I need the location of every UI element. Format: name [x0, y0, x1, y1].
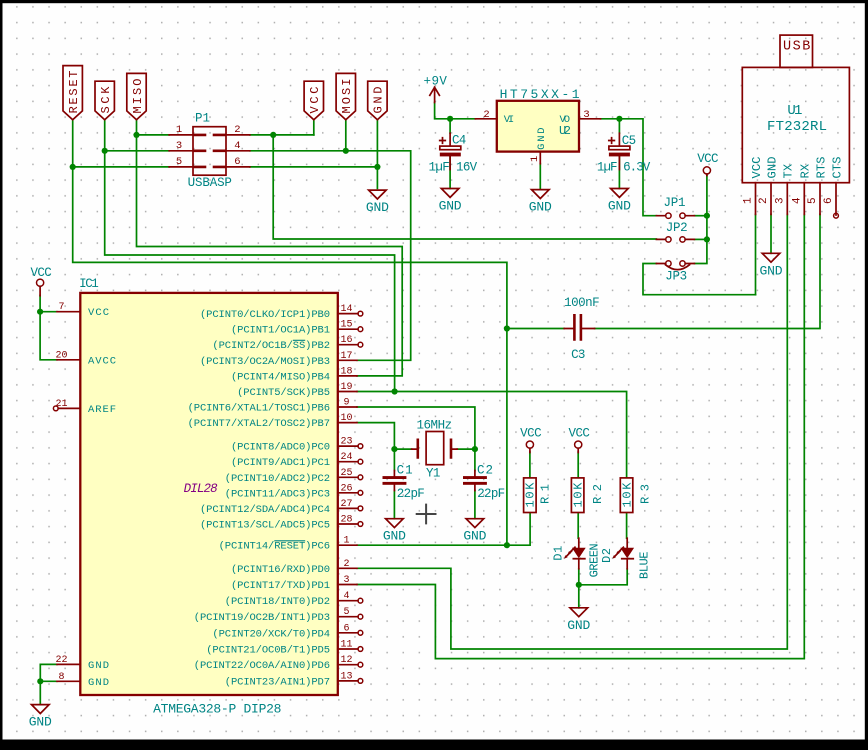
svg-text:(PCINT12/SDA/ADC4)PC4: (PCINT12/SDA/ADC4)PC4 — [200, 504, 330, 516]
svg-text:GND: GND — [372, 87, 386, 114]
svg-text:VCC: VCC — [568, 427, 590, 441]
svg-text:4: 4 — [234, 140, 240, 152]
svg-text:(PCINT5/SCK)PB5: (PCINT5/SCK)PB5 — [237, 387, 330, 399]
svg-text:18: 18 — [340, 366, 352, 377]
svg-text:(PCINT19/OC2B/INT1)PD3: (PCINT19/OC2B/INT1)PD3 — [194, 612, 330, 624]
svg-text:5: 5 — [807, 197, 819, 204]
svg-text:1: 1 — [176, 124, 182, 136]
svg-text:4: 4 — [343, 591, 349, 602]
svg-text:13: 13 — [340, 671, 352, 682]
svg-text:15: 15 — [340, 320, 352, 331]
svg-text:10K: 10K — [620, 482, 634, 508]
svg-text:21: 21 — [55, 399, 67, 410]
svg-text:RESET: RESET — [67, 71, 81, 114]
svg-text:(PCINT17/TXD)PD1: (PCINT17/TXD)PD1 — [231, 580, 330, 592]
svg-text:17: 17 — [340, 351, 352, 362]
svg-text:GND: GND — [88, 677, 109, 689]
svg-text:VCC: VCC — [88, 307, 109, 319]
svg-text:10: 10 — [340, 413, 352, 424]
svg-text:28: 28 — [340, 515, 352, 526]
svg-text:BLUE: BLUE — [638, 552, 652, 580]
svg-text:3: 3 — [583, 109, 589, 121]
svg-text:(PCINT20/XCK/T0)PD4: (PCINT20/XCK/T0)PD4 — [212, 628, 330, 640]
svg-text:(PCINT21/OC0B/T1)PD5: (PCINT21/OC0B/T1)PD5 — [206, 645, 330, 657]
svg-text:+9V: +9V — [423, 75, 447, 89]
svg-text:GND: GND — [439, 199, 462, 214]
svg-text:(PCINT2/OC1B/SS)PB2: (PCINT2/OC1B/SS)PB2 — [212, 340, 330, 352]
svg-text:2: 2 — [758, 197, 770, 204]
svg-text:Y1: Y1 — [426, 467, 440, 481]
svg-text:JP2: JP2 — [666, 221, 688, 235]
svg-text:DIL28: DIL28 — [184, 482, 218, 496]
svg-text:16MHz: 16MHz — [416, 418, 452, 432]
svg-text:(PCINT3/OC2A/MOSI)PB3: (PCINT3/OC2A/MOSI)PB3 — [200, 356, 330, 368]
svg-text:24: 24 — [340, 452, 352, 463]
svg-text:4: 4 — [791, 197, 803, 204]
svg-text:6: 6 — [343, 623, 349, 634]
svg-text:26: 26 — [340, 483, 352, 494]
svg-text:(PCINT23/AIN1)PD7: (PCINT23/AIN1)PD7 — [225, 676, 330, 688]
svg-text:3: 3 — [343, 575, 349, 586]
svg-text:11: 11 — [340, 640, 352, 651]
svg-text:D1: D1 — [552, 546, 566, 561]
svg-text:AVCC: AVCC — [88, 355, 116, 367]
svg-text:(PCINT0/CLKO/ICP1)PB0: (PCINT0/CLKO/ICP1)PB0 — [200, 309, 330, 321]
svg-text:P1: P1 — [195, 112, 210, 126]
svg-text:GND: GND — [88, 660, 109, 672]
svg-text:(PCINT18/INT0)PD2: (PCINT18/INT0)PD2 — [225, 596, 330, 608]
svg-text:GND: GND — [765, 157, 779, 179]
svg-text:1: 1 — [343, 536, 349, 547]
svg-text:GND: GND — [529, 200, 552, 215]
svg-text:GND: GND — [760, 263, 783, 278]
svg-text:D2: D2 — [600, 548, 614, 563]
svg-text:2: 2 — [483, 109, 489, 121]
svg-text:10K: 10K — [524, 482, 538, 508]
svg-text:U1: U1 — [787, 103, 802, 119]
svg-text:ATMEGA328-P DIP28: ATMEGA328-P DIP28 — [153, 702, 281, 717]
svg-text:6: 6 — [234, 156, 240, 168]
svg-text:RX: RX — [799, 164, 813, 179]
svg-text:23: 23 — [340, 437, 352, 448]
svg-text:GND: GND — [567, 618, 590, 633]
svg-text:(PCINT10/ADC2)PC2: (PCINT10/ADC2)PC2 — [225, 473, 330, 485]
svg-text:VI: VI — [504, 114, 515, 126]
svg-text:(PCINT9/ADC1)PC1: (PCINT9/ADC1)PC1 — [231, 457, 330, 469]
svg-text:GND: GND — [29, 715, 52, 730]
svg-text:RTS: RTS — [814, 157, 828, 179]
svg-text:(PCINT1/OC1A)PB1: (PCINT1/OC1A)PB1 — [231, 325, 330, 337]
svg-text:GND: GND — [608, 199, 631, 214]
svg-text:VCC: VCC — [308, 87, 322, 114]
svg-text:CTS: CTS — [830, 157, 844, 179]
svg-text:C4: C4 — [452, 133, 466, 147]
svg-text:C1: C1 — [397, 464, 413, 478]
svg-text:VCC: VCC — [750, 157, 764, 179]
svg-text:25: 25 — [340, 468, 352, 479]
svg-text:(PCINT13/SCL/ADC5)PC5: (PCINT13/SCL/ADC5)PC5 — [200, 520, 330, 532]
svg-text:12: 12 — [340, 655, 352, 666]
svg-text:GND: GND — [383, 529, 406, 544]
svg-text:USB: USB — [783, 40, 810, 55]
svg-text:6: 6 — [823, 197, 835, 204]
svg-text:U2: U2 — [559, 124, 571, 138]
svg-text:GND: GND — [536, 127, 548, 150]
svg-text:1: 1 — [529, 156, 541, 162]
svg-text:IC1: IC1 — [79, 277, 99, 291]
svg-text:2: 2 — [343, 559, 349, 570]
svg-text:JP3: JP3 — [665, 270, 687, 284]
svg-text:(PCINT8/ADC0)PC0: (PCINT8/ADC0)PC0 — [231, 442, 330, 454]
svg-text:C3: C3 — [571, 348, 585, 362]
svg-text:VCC: VCC — [30, 266, 51, 280]
svg-text:C2: C2 — [477, 464, 493, 478]
svg-text:7: 7 — [58, 302, 64, 313]
svg-text:22: 22 — [55, 655, 67, 666]
svg-text:3: 3 — [774, 197, 786, 204]
svg-text:(PCINT14/RESET)PC6: (PCINT14/RESET)PC6 — [219, 541, 330, 553]
svg-text:5: 5 — [176, 156, 182, 168]
svg-text:9: 9 — [343, 398, 349, 409]
svg-text:USBASP: USBASP — [188, 176, 232, 190]
svg-text:3: 3 — [176, 140, 182, 152]
svg-text:(PCINT6/XTAL1/TOSC1)PB6: (PCINT6/XTAL1/TOSC1)PB6 — [188, 403, 330, 415]
svg-text:(PCINT7/XTAL2/TOSC2)PB7: (PCINT7/XTAL2/TOSC2)PB7 — [188, 418, 330, 430]
svg-text:16: 16 — [340, 335, 352, 346]
svg-text:2: 2 — [234, 124, 240, 136]
svg-text:14: 14 — [340, 304, 352, 315]
svg-text:GND: GND — [463, 529, 486, 544]
svg-text:TX: TX — [782, 164, 796, 179]
svg-text:VCC: VCC — [520, 427, 542, 441]
svg-text:AREF: AREF — [88, 404, 116, 416]
svg-text:1µF 16V: 1µF 16V — [429, 161, 478, 175]
svg-text:SCK: SCK — [99, 86, 113, 114]
svg-text:19: 19 — [340, 382, 352, 393]
svg-text:100nF: 100nF — [564, 296, 600, 310]
svg-text:(PCINT11/ADC3)PC3: (PCINT11/ADC3)PC3 — [225, 488, 330, 500]
svg-text:GND: GND — [366, 200, 389, 215]
svg-text:(PCINT16/RXD)PD0: (PCINT16/RXD)PD0 — [231, 564, 330, 576]
svg-text:VCC: VCC — [697, 152, 718, 166]
svg-text:(PCINT4/MISO)PB4: (PCINT4/MISO)PB4 — [231, 371, 330, 383]
svg-text:JP1: JP1 — [664, 196, 686, 210]
svg-text:22pF: 22pF — [397, 487, 425, 501]
svg-text:8: 8 — [58, 672, 64, 683]
svg-text:22pF: 22pF — [477, 487, 505, 501]
svg-text:FT232RL: FT232RL — [767, 119, 827, 135]
svg-text:27: 27 — [340, 499, 352, 510]
svg-text:10K: 10K — [572, 482, 586, 508]
svg-text:20: 20 — [55, 350, 67, 361]
svg-text:(PCINT22/OC0A/AIN0)PD6: (PCINT22/OC0A/AIN0)PD6 — [194, 660, 330, 672]
svg-text:1: 1 — [743, 197, 755, 204]
svg-text:C5: C5 — [622, 134, 636, 148]
svg-text:1µF 6.3V: 1µF 6.3V — [597, 161, 651, 175]
svg-text:5: 5 — [343, 607, 349, 618]
